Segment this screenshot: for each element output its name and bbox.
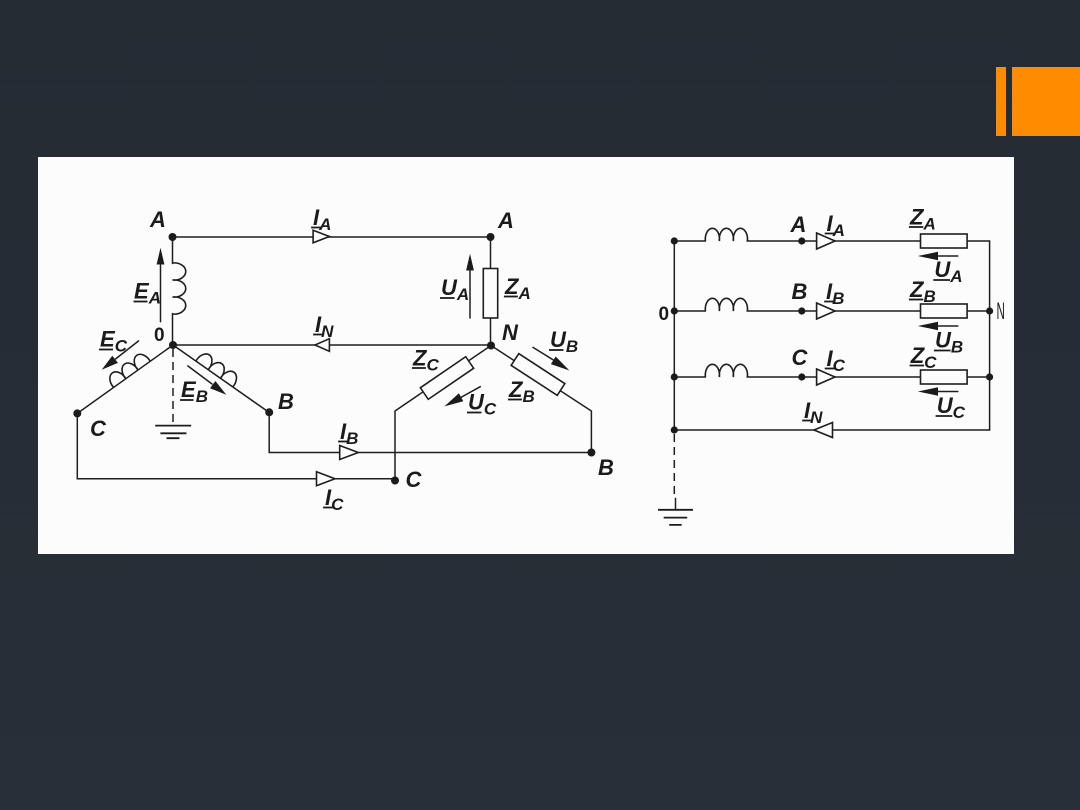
svg-text:ZB: ZB (909, 277, 936, 306)
svg-text:IA: IA (827, 211, 845, 240)
svg-text:B: B (792, 279, 808, 304)
svg-text:ZC: ZC (910, 343, 937, 372)
svg-text:0: 0 (659, 304, 670, 325)
svg-text:B: B (598, 455, 614, 480)
svg-text:EA: EA (134, 279, 161, 308)
svg-text:IB: IB (340, 419, 358, 448)
svg-text:IA: IA (313, 205, 331, 234)
svg-text:0: 0 (154, 325, 165, 346)
svg-text:UA: UA (934, 257, 962, 286)
svg-text:UC: UC (937, 393, 966, 422)
svg-text:C: C (90, 416, 107, 441)
svg-text:ZB: ZB (508, 377, 535, 406)
svg-text:A: A (790, 212, 807, 237)
svg-text:N: N (502, 320, 519, 345)
svg-text:ZA: ZA (504, 274, 531, 303)
svg-text:C: C (792, 345, 809, 370)
svg-text:N: N (996, 298, 1004, 325)
svg-text:EB: EB (181, 377, 208, 406)
svg-text:IC: IC (325, 485, 344, 514)
svg-text:UB: UB (935, 328, 963, 357)
svg-text:ZA: ZA (909, 205, 936, 234)
svg-text:C: C (406, 467, 423, 492)
svg-text:IC: IC (827, 346, 846, 375)
svg-text:UB: UB (550, 327, 578, 356)
svg-text:ZC: ZC (412, 346, 439, 375)
svg-text:EC: EC (100, 327, 128, 356)
svg-text:IB: IB (826, 279, 844, 308)
svg-text:A: A (149, 207, 166, 232)
svg-text:IN: IN (315, 312, 334, 341)
svg-text:UC: UC (468, 390, 497, 419)
svg-text:UA: UA (441, 275, 469, 304)
svg-text:A: A (497, 208, 514, 233)
svg-text:B: B (278, 389, 294, 414)
svg-text:IN: IN (804, 398, 823, 427)
